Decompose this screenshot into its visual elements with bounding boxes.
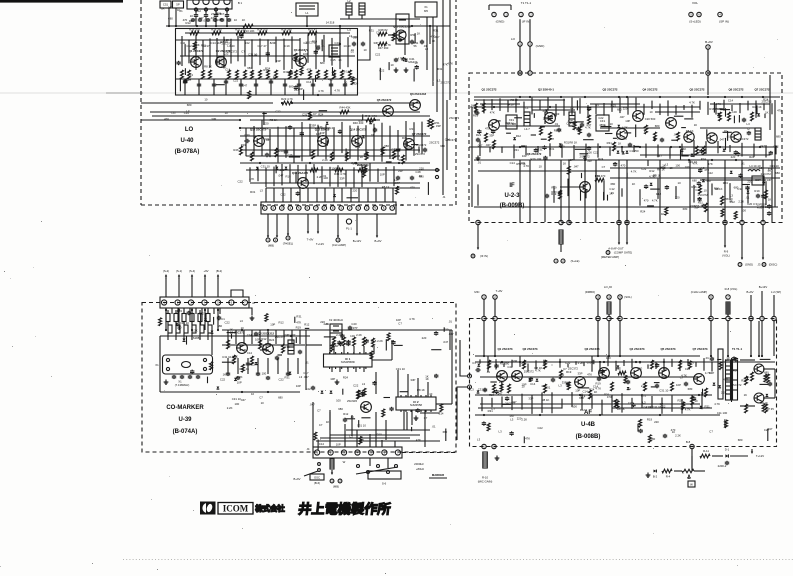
wire (597, 299, 599, 316)
wire (301, 122, 303, 161)
svg-text:W: W (690, 483, 693, 487)
wire (226, 18, 228, 26)
wire (152, 115, 430, 117)
wire (519, 356, 521, 367)
wire (246, 308, 252, 315)
node (205, 25, 207, 27)
wire (225, 79, 227, 95)
svg-text:2.2K: 2.2K (721, 390, 727, 394)
capacitor (213, 83, 215, 84)
node (663, 361, 665, 363)
capacitor (559, 191, 561, 192)
oscillator sub-board box (176, 29, 358, 96)
svg-text:10: 10 (234, 18, 238, 22)
node (639, 146, 641, 148)
pin IF bottom 3 (761, 220, 765, 224)
transistor Q2 FET (545, 113, 556, 124)
wire (699, 101, 701, 110)
svg-text:680: 680 (587, 361, 592, 365)
node (688, 159, 690, 161)
wire (475, 394, 712, 396)
svg-text:4.7K: 4.7K (631, 169, 637, 173)
svg-text:470: 470 (485, 127, 490, 131)
trimmer capacitor CT2 (203, 0, 209, 5)
svg-text:10: 10 (204, 97, 208, 101)
node (291, 102, 293, 104)
svg-text:.047: .047 (573, 165, 579, 169)
node (168, 25, 170, 27)
wire (250, 119, 380, 121)
svg-text:L3: L3 (186, 109, 190, 113)
wire (179, 79, 181, 91)
wire (712, 455, 723, 457)
wire (683, 105, 685, 110)
transistor Q4 IF (633, 111, 644, 122)
wire (560, 186, 581, 188)
svg-text:C7: C7 (398, 322, 402, 326)
resistor (308, 112, 311, 120)
pin IF top edge 1 (518, 71, 522, 75)
wire (740, 359, 755, 361)
resistor (677, 132, 680, 141)
capacitor (227, 372, 229, 373)
wire (339, 367, 341, 372)
transistor Q3 2SC372 (296, 56, 307, 67)
svg-text:33P: 33P (320, 131, 325, 135)
svg-text:4.7K: 4.7K (409, 317, 415, 321)
capacitor (656, 363, 658, 364)
node (339, 43, 341, 45)
wire (561, 144, 563, 158)
svg-text:R31: R31 (413, 41, 419, 45)
capacitor (347, 342, 349, 343)
svg-text:680: 680 (764, 370, 769, 374)
node (529, 96, 531, 98)
wire (547, 97, 549, 110)
svg-text:T+9V: T+9V (307, 238, 314, 242)
transistor Q5 IF (666, 118, 677, 129)
svg-text:L3: L3 (759, 166, 763, 170)
svg-text:1K: 1K (188, 77, 192, 81)
capacitor C40 (353, 42, 355, 44)
wire (635, 125, 637, 138)
svg-text:2SC372: 2SC372 (738, 137, 749, 141)
wire (491, 398, 493, 408)
wire (490, 381, 496, 383)
resistor (544, 384, 547, 393)
svg-text:4.7K: 4.7K (232, 355, 238, 359)
wire (337, 165, 339, 187)
svg-text:R8 1K: R8 1K (569, 140, 577, 144)
resistor R31 (308, 31, 317, 35)
wire (237, 36, 239, 62)
wire (321, 39, 323, 51)
wire (483, 99, 485, 113)
diode D-1 (725, 454, 728, 457)
wire (601, 400, 603, 415)
inductor L1 box (296, 3, 318, 16)
wire (198, 79, 200, 95)
svg-text:(B-078A): (B-078A) (175, 149, 200, 155)
svg-text:100: 100 (323, 176, 328, 180)
pin CH LAMP (336, 238, 340, 242)
node (306, 25, 308, 27)
svg-text:1K: 1K (765, 111, 769, 115)
capacitor (483, 421, 485, 422)
svg-text:10: 10 (704, 189, 708, 193)
svg-text:C14: C14 (247, 333, 253, 337)
wire (573, 145, 575, 160)
capacitor C42 (411, 40, 413, 42)
wire (590, 103, 640, 105)
transistor Q6 2SC372 (410, 100, 421, 111)
capacitor (474, 112, 476, 114)
svg-text:Q2 2SC373: Q2 2SC373 (522, 347, 537, 351)
svg-text:R19: R19 (714, 186, 720, 190)
wire (329, 167, 331, 187)
capacitor (392, 340, 394, 341)
svg-text:(CHG LAMP): (CHG LAMP) (691, 290, 708, 294)
wire (231, 290, 243, 297)
scan artifact: faint horizontal streak (0, 92, 793, 94)
svg-text:.047: .047 (673, 133, 679, 137)
capacitor (492, 129, 494, 130)
wire (741, 225, 743, 255)
svg-text:47K: 47K (164, 117, 169, 121)
wire (657, 145, 659, 158)
svg-text:R31: R31 (250, 190, 256, 194)
wire (540, 126, 545, 128)
svg-text:R8 1K: R8 1K (554, 129, 562, 133)
pin SOL (618, 295, 622, 299)
wire (501, 146, 503, 153)
capacitor (769, 382, 771, 384)
resistor (166, 314, 170, 322)
resistor (289, 70, 292, 79)
wire (651, 396, 653, 409)
svg-text:33P: 33P (766, 178, 771, 182)
svg-text:3?P: 3?P (353, 326, 358, 330)
capacitor C1 (218, 316, 220, 318)
wire (681, 155, 688, 157)
svg-text:47K: 47K (249, 177, 254, 181)
svg-text:680: 680 (247, 66, 252, 70)
resistor (210, 362, 213, 370)
wire (347, 367, 349, 372)
svg-text:4.7K: 4.7K (652, 199, 658, 203)
wire (315, 75, 317, 82)
wire (331, 38, 333, 66)
wire (413, 69, 415, 82)
wire (402, 452, 456, 454)
transistor Q3 AF (575, 377, 586, 388)
capacitor C44 (395, 58, 397, 59)
node (539, 414, 541, 416)
wire (568, 160, 570, 222)
pin J3 DISC (762, 263, 766, 267)
wire (655, 111, 700, 113)
wire (727, 321, 729, 356)
wire (369, 458, 371, 466)
wire (765, 145, 767, 157)
svg-text:4.7K: 4.7K (714, 402, 720, 406)
pot R-10 MIC GAIN (483, 452, 488, 468)
wire (700, 127, 756, 129)
scan artifact: top-left black bar (0, 0, 123, 3)
svg-text:Q1 2SC373: Q1 2SC373 (497, 347, 512, 351)
wire (741, 160, 743, 222)
node (597, 355, 599, 357)
transistor Q2 CO (263, 344, 274, 355)
resistor (236, 70, 239, 79)
wire (543, 360, 545, 365)
svg-text:4.7K: 4.7K (334, 89, 340, 93)
capacitor (240, 34, 242, 35)
IC2 NJM4558 (396, 397, 436, 410)
AF module dashed border (B-008B) (470, 319, 777, 447)
svg-text:(B-6): (B-6) (314, 481, 320, 485)
svg-text:5P: 5P (176, 3, 180, 7)
wire (361, 417, 370, 419)
svg-text:220: 220 (654, 420, 659, 424)
wire (600, 127, 660, 129)
svg-text:C7: C7 (319, 423, 323, 427)
svg-text:C7: C7 (709, 429, 713, 433)
wire (575, 148, 586, 150)
svg-text:J1: J1 (401, 203, 404, 207)
wire (189, 308, 191, 314)
resistor (392, 33, 395, 41)
resistor (508, 384, 511, 393)
svg-text:IF: IF (509, 183, 515, 189)
wire (684, 118, 693, 120)
diode (617, 125, 620, 128)
wire (763, 368, 775, 370)
node (584, 96, 586, 98)
wire (707, 160, 709, 222)
svg-text:2SC372: 2SC372 (698, 193, 709, 197)
svg-text:2200-2: 2200-2 (718, 464, 727, 468)
svg-text:R24 100: R24 100 (257, 28, 268, 32)
svg-text:.01: .01 (486, 370, 490, 374)
capacitor (315, 50, 317, 51)
wire (541, 138, 547, 140)
node (165, 309, 167, 311)
svg-text:100: 100 (363, 406, 368, 410)
wire (567, 179, 569, 197)
svg-text:4.7K: 4.7K (318, 89, 324, 93)
wire (339, 36, 341, 69)
resistor (544, 360, 547, 369)
resistor (244, 70, 247, 79)
wire (298, 79, 300, 95)
svg-text:R24: R24 (723, 181, 729, 185)
svg-text:Q3 2SC372: Q3 2SC372 (602, 88, 617, 92)
resistor (573, 122, 576, 130)
svg-text:R31: R31 (189, 19, 195, 23)
coil IFT3 (755, 128, 761, 140)
transistor Q7 AF (694, 374, 705, 385)
pin mid (607, 295, 611, 299)
wire (576, 100, 578, 110)
diode (626, 151, 629, 154)
capacitor (645, 185, 647, 186)
resistor (648, 435, 651, 443)
wire (269, 129, 271, 157)
wire (753, 144, 755, 157)
node (761, 355, 763, 357)
wire (529, 160, 531, 222)
svg-text:R31: R31 (698, 201, 704, 205)
capacitor C1 (195, 13, 197, 15)
svg-text:10P: 10P (568, 158, 573, 162)
resistor (588, 115, 591, 124)
svg-text:C31 10: C31 10 (180, 321, 189, 325)
resistor (488, 360, 491, 369)
svg-text:470: 470 (242, 348, 247, 352)
wire (551, 392, 553, 413)
wire (681, 399, 683, 414)
svg-text:(B-009B): (B-009B) (500, 203, 525, 209)
svg-text:Q5 2SC372: Q5 2SC372 (689, 88, 704, 92)
resistor (359, 436, 362, 444)
capacitor (198, 83, 200, 84)
svg-text:680: 680 (278, 396, 283, 400)
capacitor (188, 311, 190, 312)
wire (637, 424, 639, 432)
wire (478, 170, 610, 172)
capacitor (762, 194, 764, 195)
resistor (381, 147, 384, 155)
wire (240, 135, 430, 137)
wire (330, 79, 332, 95)
svg-text:R31: R31 (410, 127, 416, 131)
wire (201, 308, 203, 314)
capacitor (506, 397, 508, 398)
svg-text:100: 100 (217, 18, 222, 22)
coil L2 (346, 3, 352, 15)
capacitor (416, 65, 418, 66)
svg-text:C31 10: C31 10 (222, 355, 231, 359)
resistor (331, 344, 334, 352)
wire (578, 387, 590, 389)
wire (171, 308, 173, 314)
capacitor (629, 143, 631, 145)
resistor (734, 211, 737, 219)
resistor (259, 340, 262, 349)
wire (579, 98, 581, 114)
wire (397, 370, 399, 397)
node (398, 162, 400, 164)
diode (234, 378, 237, 381)
wire (345, 418, 355, 420)
diode (617, 365, 620, 368)
transistor Q6 IF (684, 132, 694, 142)
wire (183, 333, 185, 340)
capacitor (284, 83, 286, 84)
svg-text:680: 680 (217, 324, 222, 328)
capacitor (496, 364, 498, 365)
svg-text:(S-2): (S-2) (163, 269, 169, 273)
wire (299, 330, 301, 344)
wire (317, 125, 319, 157)
svg-text:R8 1K: R8 1K (686, 129, 694, 133)
svg-text:R24: R24 (733, 369, 739, 373)
node (317, 94, 319, 96)
svg-text:Q10 2SC1318: Q10 2SC1318 (393, 25, 411, 29)
wire (480, 403, 700, 405)
svg-text:R24: R24 (763, 97, 769, 101)
svg-text:ICOM: ICOM (223, 504, 249, 514)
wire (613, 137, 617, 139)
svg-text:2.2K: 2.2K (675, 434, 681, 438)
wire (555, 104, 557, 117)
svg-text:(S+LE): (S+LE) (571, 259, 580, 263)
transistor Q7 IF (707, 133, 717, 143)
wire (645, 144, 647, 158)
capacitor (588, 133, 590, 135)
wire (305, 327, 310, 329)
svg-text:Q4 2SC372: Q4 2SC372 (642, 88, 657, 92)
capacitor (399, 38, 401, 39)
svg-text:.047: .047 (656, 154, 662, 158)
node (689, 96, 691, 98)
svg-text:R8 1K: R8 1K (342, 70, 350, 74)
svg-text:680: 680 (168, 16, 173, 20)
wire (270, 79, 272, 95)
resistor (343, 337, 346, 346)
svg-text:220: 220 (419, 167, 424, 171)
wire (624, 132, 631, 134)
wire (177, 308, 179, 314)
ground (251, 316, 253, 319)
svg-text:R8 1K: R8 1K (204, 64, 212, 68)
wire (691, 105, 693, 118)
svg-text:MARKER: MARKER (432, 473, 444, 477)
wire (306, 329, 452, 331)
wire (375, 372, 377, 394)
svg-text:L3: L3 (425, 47, 429, 51)
transistor Q10 2SC1318 (396, 30, 406, 40)
label OSC B-6 (310, 474, 324, 480)
wire (358, 26, 370, 60)
wire (267, 330, 269, 344)
svg-text:4.7K: 4.7K (622, 125, 628, 129)
wire IF mid bus (474, 159, 640, 161)
label (IF IN) (471, 254, 475, 258)
svg-text:.01: .01 (745, 195, 749, 199)
svg-text:C31 10: C31 10 (659, 389, 668, 393)
svg-text:VOL: VOL (692, 1, 698, 5)
svg-text:100: 100 (303, 52, 308, 56)
wire (355, 367, 357, 372)
svg-text:100: 100 (732, 110, 737, 114)
wire (445, 429, 447, 442)
svg-text:10P: 10P (237, 380, 242, 384)
pin MB1 (330, 479, 334, 483)
wire (585, 189, 587, 198)
svg-text:C7: C7 (313, 112, 317, 116)
wire (599, 361, 601, 372)
wire (405, 121, 407, 161)
capacitor (289, 125, 291, 126)
wire (297, 358, 299, 374)
svg-text:R24: R24 (741, 379, 747, 383)
capacitor (546, 194, 548, 196)
node (241, 391, 243, 393)
svg-text:47K: 47K (708, 162, 713, 166)
svg-text:.01: .01 (350, 50, 354, 54)
